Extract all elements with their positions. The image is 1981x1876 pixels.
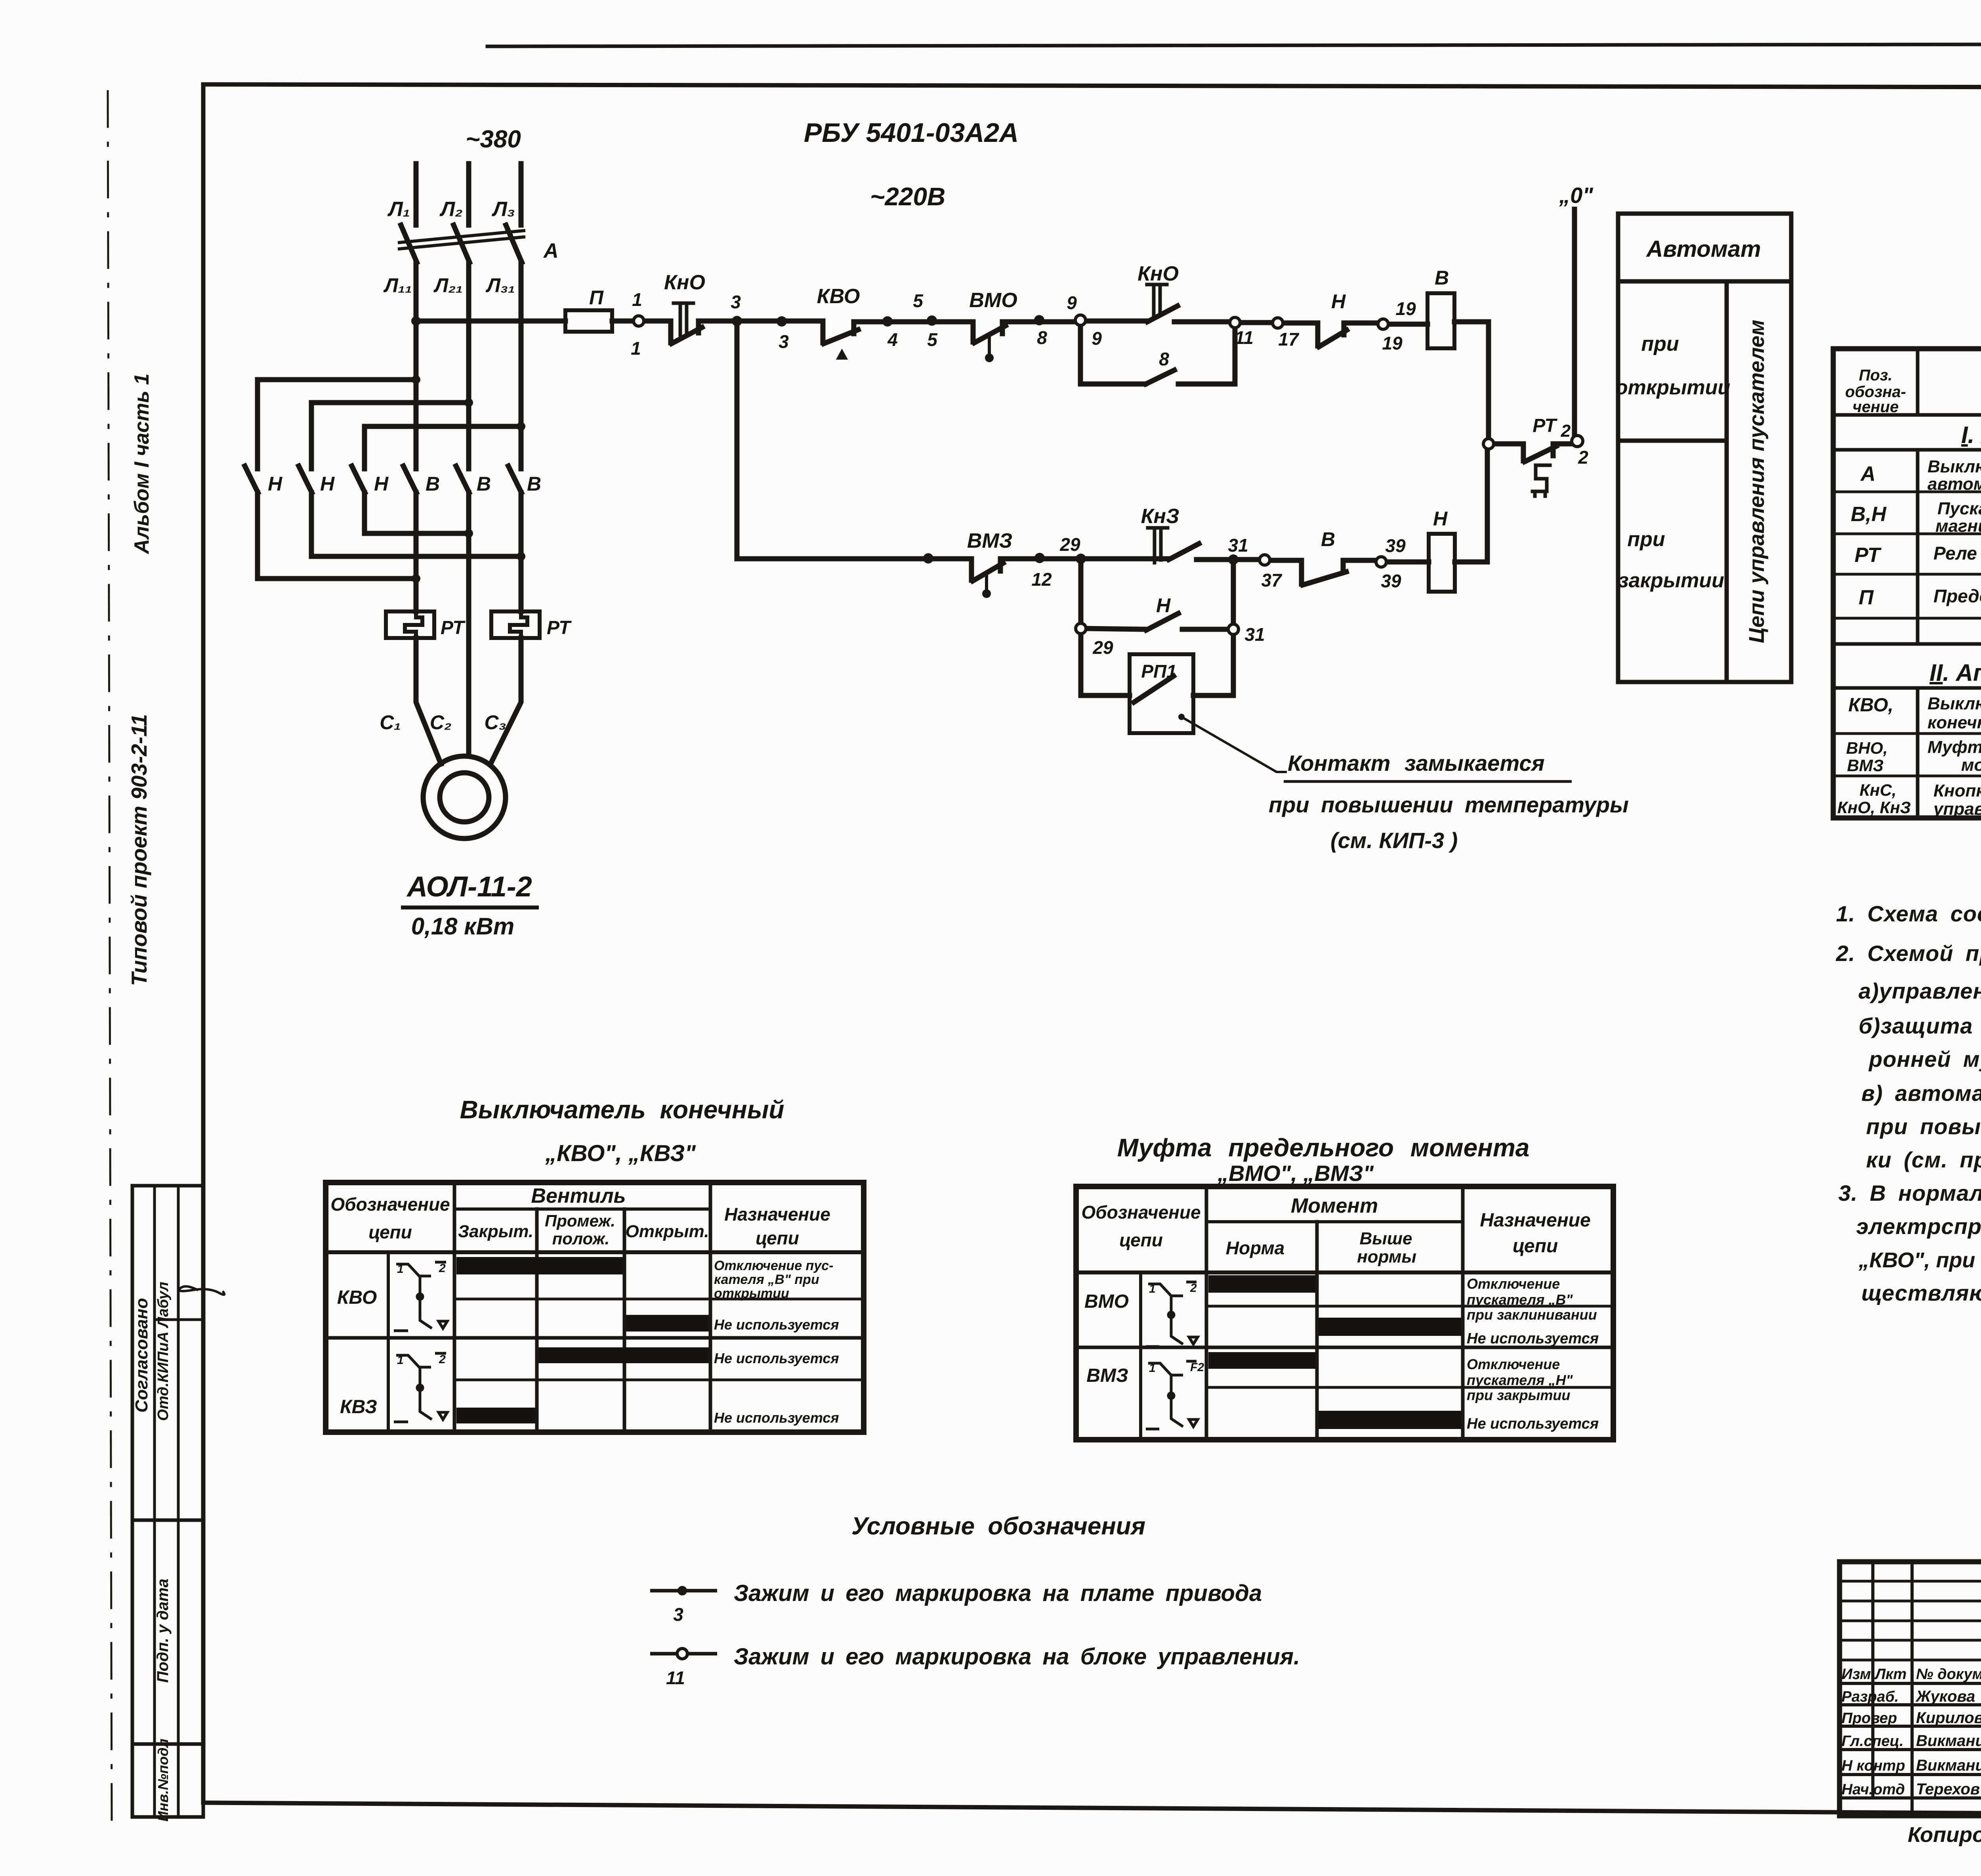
svg-text:РП1: РП1: [1141, 661, 1176, 682]
contact КВО blade: [824, 330, 858, 344]
node: L1 / H1 top junction: [412, 375, 420, 384]
svg-text:В: В: [426, 473, 440, 495]
table2 symbol subcolumn: [1139, 1272, 1142, 1440]
element table outline: [1833, 349, 1981, 818]
node 19 circle: [1378, 319, 1388, 329]
svg-text:Выключатель конечный: Выключатель конечный: [460, 1095, 784, 1124]
wire: motor lead C1: [416, 638, 441, 764]
switch symbol КВО: [394, 1262, 447, 1331]
table2 header bottom: [1076, 1270, 1613, 1274]
contact КВО left post: [821, 321, 826, 343]
svg-text:Муфта предельного момента: Муфта предельного момента: [1117, 1133, 1530, 1162]
svg-text:ществляющей закрытие вентиля: ществляющей закрытие вентиля с дожимом.: [1861, 1280, 1981, 1305]
svg-text:ки (см. проект КИП).: ки (см. проект КИП).: [1866, 1147, 1981, 1172]
wire: coil Н to right riser: [1455, 449, 1487, 562]
node 3: [732, 316, 742, 326]
svg-text:1: 1: [397, 1263, 404, 1276]
svg-text:1: 1: [631, 338, 641, 359]
contact 8 blade: [1146, 370, 1174, 384]
svg-text:КВЗ: КВЗ: [340, 1396, 377, 1418]
svg-text:~380: ~380: [466, 126, 521, 153]
wire: node9 to button КнО2: [1086, 319, 1147, 324]
svg-text:С₁: С₁: [380, 711, 401, 734]
node 5: [927, 315, 937, 326]
left stamp box Инв. номер подл.: [132, 1744, 203, 1817]
svg-text:11: 11: [666, 1668, 685, 1688]
node 1 circle: [634, 316, 644, 326]
contact РТ right hook: [1553, 444, 1572, 456]
svg-text:3: 3: [779, 331, 789, 352]
svg-text:Альбом I часть 1: Альбом I часть 1: [130, 373, 153, 554]
wire: phase L1 upper: [414, 164, 419, 225]
svg-text:Назначение: Назначение: [1480, 1210, 1590, 1231]
breaker A pole 3 blade: [506, 225, 522, 262]
wire: junction to РТ contact: [1493, 444, 1523, 461]
node 37 circle: [1260, 555, 1270, 565]
svg-text:пускателя „Н": пускателя „Н": [1467, 1372, 1573, 1388]
svg-text:2: 2: [1561, 421, 1571, 441]
wire: phase L11 lower: [414, 262, 419, 611]
svg-text:Инв.№подл: Инв.№подл: [155, 1738, 171, 1821]
table1 header Вентиль underline: [454, 1207, 710, 1211]
svg-text:29: 29: [1092, 637, 1113, 658]
wire: rung2 bypass drop left: [1078, 559, 1084, 623]
node 2 circle: [1572, 436, 1583, 447]
contact КВО right hook: [854, 322, 973, 334]
node 11 circle: [1230, 317, 1240, 328]
svg-text:Кнопка: Кнопка: [1933, 781, 1981, 800]
travel bar ВМЗ norm: [1208, 1352, 1315, 1369]
svg-text:Промеж.: Промеж.: [545, 1211, 615, 1230]
svg-text:полож.: полож.: [552, 1229, 610, 1248]
svg-text:„0": „0": [1559, 183, 1594, 208]
svg-text:Открыт.: Открыт.: [626, 1222, 709, 1241]
wire: phase L21 lower: [466, 262, 471, 756]
svg-text:при заклинивании: при заклинивании: [1467, 1307, 1597, 1323]
node 8: [1034, 315, 1044, 325]
svg-text:1: 1: [397, 1354, 404, 1367]
thermal relay РТ hook symbol: [1533, 465, 1550, 496]
svg-text:Н: Н: [320, 473, 335, 495]
svg-text:ВМЗ: ВМЗ: [1847, 756, 1884, 775]
element table header bottom: [1833, 413, 1981, 417]
frame top border: [203, 84, 1981, 88]
wire: bypass2 left to Н contact: [1086, 629, 1146, 629]
svg-text:цепи: цепи: [756, 1228, 799, 1248]
svg-text:31: 31: [1244, 624, 1265, 645]
svg-text:Викманис: Викманис: [1916, 1757, 1981, 1774]
node: L2 / H3 bottom junction: [464, 529, 473, 538]
breaker A tie bar: [399, 231, 524, 243]
svg-text:КнС,: КнС,: [1859, 781, 1896, 799]
svg-text:ВМО: ВМО: [1084, 1291, 1129, 1312]
svg-text:ВНО,: ВНО,: [1846, 739, 1888, 757]
wire: motor lead C3: [490, 638, 521, 764]
svg-text:закрытии: закрытии: [1618, 569, 1724, 592]
breaker A pole 1 blade: [401, 225, 417, 262]
svg-text:Л₃: Л₃: [491, 198, 515, 221]
svg-text:„ВМО", „ВМЗ": „ВМО", „ВМЗ": [1217, 1161, 1374, 1186]
wire: drop node3 to rung2: [737, 321, 971, 559]
svg-text:момента: момента: [1961, 755, 1981, 775]
node 9 circle: [1075, 315, 1086, 325]
contact РТ blade: [1525, 446, 1556, 462]
svg-text:П: П: [589, 287, 604, 309]
wire: H branch top 1: [258, 380, 416, 469]
wire: rung1 bypass (seal-in contact 8): [1080, 325, 1145, 384]
svg-text:нормы: нормы: [1357, 1247, 1416, 1267]
node: L3 / H2 bottom junction: [517, 552, 525, 561]
svg-text:цепи: цепи: [1119, 1230, 1163, 1250]
contactor H pole 1 blade: [245, 466, 258, 493]
svg-text:~220В: ~220В: [870, 182, 945, 211]
node dot rung2 left: [923, 553, 933, 564]
svg-text:КнО: КнО: [1137, 262, 1179, 285]
element table column Поз: [1916, 349, 1920, 818]
node 39 circle: [1376, 557, 1386, 567]
button КнЗ plunger: [1148, 528, 1168, 563]
node 29 circle: [1076, 623, 1086, 634]
svg-text:Не используется: Не используется: [1467, 1330, 1599, 1347]
svg-text:КнЗ: КнЗ: [1141, 505, 1179, 528]
svg-text:Лкт: Лкт: [1874, 1666, 1907, 1683]
svg-text:В: В: [1321, 528, 1335, 550]
svg-text:2: 2: [439, 1353, 446, 1366]
svg-text:Кирилова: Кирилова: [1916, 1709, 1981, 1727]
svg-text:(см. КИП-3 ): (см. КИП-3 ): [1330, 828, 1458, 853]
svg-text:открытии: открытии: [1615, 376, 1730, 399]
svg-text:8: 8: [1037, 327, 1047, 348]
svg-text:кателя „В" при: кателя „В" при: [714, 1272, 819, 1287]
svg-text:КВО,: КВО,: [1848, 695, 1893, 716]
svg-text:Выключатель: Выключатель: [1928, 694, 1981, 713]
node 31 circle: [1228, 624, 1239, 634]
svg-text:9: 9: [1092, 328, 1102, 349]
svg-text:39: 39: [1381, 571, 1401, 591]
table2 row lines: [1206, 1305, 1613, 1308]
svg-text:Отключение пус-: Отключение пус-: [714, 1258, 833, 1273]
wire: button КнО2 right to node 11: [1174, 319, 1230, 325]
svg-text:19: 19: [1382, 333, 1403, 353]
wire: node39 to coil Н: [1386, 560, 1429, 565]
top paper edge line: [487, 44, 1981, 46]
node dot 3b: [777, 316, 787, 327]
wire: coil В to right corner: [1454, 322, 1489, 439]
coil В body: [1428, 293, 1454, 348]
svg-text:Зажим и его маркировка на: Зажим и его маркировка на плате привода: [734, 1580, 1262, 1606]
svg-text:Н: Н: [374, 473, 389, 495]
travel bar КВО circuit2 open: [626, 1315, 709, 1332]
svg-text:при: при: [1641, 332, 1679, 355]
wire: H branch bottom 1: [258, 493, 416, 579]
wire: H branch bottom 2: [311, 493, 521, 556]
legend symbol: clamp on control block: [650, 1652, 717, 1656]
svg-text:Не используется: Не используется: [714, 1316, 839, 1333]
svg-text:при: при: [1627, 528, 1665, 551]
svg-text:Момент: Момент: [1291, 1194, 1378, 1217]
svg-text:Л₂₁: Л₂₁: [433, 274, 463, 296]
svg-text:С₂: С₂: [430, 711, 452, 734]
frame bottom border: [203, 1803, 1981, 1817]
title block outline: [1840, 1562, 1981, 1816]
table1 symbol subcolumn: [387, 1252, 390, 1432]
svg-text:конечный: конечный: [1928, 713, 1981, 732]
svg-text:1: 1: [1149, 1282, 1156, 1295]
motor АОЛ-11-2 inner circle: [440, 773, 489, 822]
contact ВМЗ stub dot: [982, 589, 991, 598]
signature table row lines: [1840, 1580, 1981, 1583]
svg-text:Н: Н: [1156, 594, 1171, 617]
contact Н (rung1) blade: [1319, 330, 1347, 347]
svg-text:Согласовано: Согласовано: [132, 1298, 151, 1412]
РП1 relay box: [1130, 654, 1193, 733]
margin cut line: [108, 91, 112, 1823]
svg-text:ронней муфтой предельного м: ронней муфтой предельного момента „ВМО",…: [1868, 1047, 1981, 1072]
svg-text:12: 12: [1031, 569, 1052, 590]
svg-text:Контакт замыкается: Контакт замыкается: [1288, 751, 1545, 776]
svg-text:Вентиль: Вентиль: [531, 1184, 626, 1207]
frame left border: [201, 84, 206, 1803]
contact ВМО link stub: [988, 335, 991, 354]
wire: button КнЗ right to node 31: [1197, 557, 1233, 562]
svg-text:РТ: РТ: [547, 617, 572, 638]
wire: phase L3 upper: [519, 164, 524, 225]
svg-text:Назначение: Назначение: [724, 1204, 830, 1225]
signature table columns: [1871, 1562, 1874, 1798]
node 4: [882, 316, 893, 327]
svg-text:„КВО", „КВЗ": „КВО", „КВЗ": [545, 1141, 696, 1166]
button КнО2 plunger: [1147, 285, 1167, 317]
svg-text:Л₃₁: Л₃₁: [486, 274, 515, 296]
travel bar ВМО norm: [1208, 1275, 1315, 1293]
legend symbol: clamp on drive plate: [650, 1589, 717, 1593]
left stamp box Подп. и дата: [132, 1520, 203, 1744]
wire: H branch top 3: [365, 426, 521, 469]
svg-text:чение: чение: [1853, 398, 1899, 416]
travel bar ВМО above-norm: [1319, 1318, 1461, 1336]
node 17 circle: [1273, 318, 1283, 328]
svg-text:Отключение: Отключение: [1467, 1276, 1560, 1292]
svg-text:Н: Н: [1433, 508, 1448, 530]
svg-text:3: 3: [673, 1604, 683, 1625]
svg-text:Не используется: Не используется: [1467, 1416, 1599, 1432]
svg-text:2: 2: [439, 1262, 446, 1275]
svg-text:Викманис: Викманис: [1916, 1732, 1981, 1750]
svg-text:31: 31: [1228, 535, 1248, 556]
contact ВМЗ link stub: [985, 572, 988, 590]
svg-text:В,Н: В,Н: [1851, 503, 1887, 526]
svg-text:Нач.отд: Нач.отд: [1842, 1781, 1905, 1798]
svg-text:КВО: КВО: [337, 1287, 377, 1308]
svg-text:Муфта предельного: Муфта предельного: [1928, 737, 1981, 757]
svg-text:39: 39: [1385, 535, 1406, 556]
table1 row lines: [454, 1298, 864, 1301]
svg-text:ВМЗ: ВМЗ: [967, 529, 1012, 552]
svg-text:РТ: РТ: [1533, 415, 1557, 436]
table1 outline: [326, 1183, 864, 1432]
wire: phase L2 upper: [466, 164, 471, 225]
svg-text:Л₁: Л₁: [387, 198, 410, 221]
svg-text:Не используется: Не используется: [714, 1410, 839, 1426]
svg-text:1: 1: [632, 289, 642, 310]
table1 header bottom: [326, 1250, 864, 1254]
button КнО plunger: [674, 303, 693, 335]
svg-text:В: В: [527, 473, 541, 495]
node 31 upper dot: [1228, 554, 1239, 565]
contact ВМО stub dot: [985, 353, 994, 362]
svg-text:цепи: цепи: [1513, 1236, 1558, 1257]
svg-text:Терехов: Терехов: [1916, 1780, 1980, 1798]
svg-text:Закрыт.: Закрыт.: [458, 1222, 533, 1241]
contact В (rung2) blade: [1303, 572, 1346, 585]
left stamp box Согласовано: [132, 1186, 203, 1520]
thermal relay РТ heater 1 box: [386, 611, 434, 638]
svg-text:Норма: Норма: [1226, 1238, 1284, 1258]
stamp signature squiggle: [179, 1286, 224, 1295]
contactor B pole 2 blade: [456, 466, 469, 493]
svg-text:Отключение: Отключение: [1467, 1356, 1560, 1372]
wire: bypass right side: [1178, 329, 1235, 384]
contact Н (rung1) left post: [1315, 323, 1321, 346]
svg-text:17: 17: [1278, 329, 1300, 350]
svg-text:Н: Н: [268, 473, 282, 495]
svg-text:37: 37: [1261, 570, 1282, 590]
svg-text:управления: управления: [1933, 799, 1981, 819]
svg-text:АОЛ-11-2: АОЛ-11-2: [406, 871, 532, 903]
node junction coils circle: [1483, 439, 1494, 449]
contact ВМО left post: [971, 322, 976, 342]
svg-text:Провер: Провер: [1842, 1710, 1897, 1727]
wire: node11 to node17 to H contact: [1240, 320, 1273, 325]
button КнО left post: [668, 321, 674, 343]
svg-text:КнО: КнО: [664, 271, 705, 294]
svg-text:9: 9: [1067, 292, 1077, 313]
svg-text:РТ: РТ: [441, 617, 466, 638]
svg-text:5: 5: [927, 329, 938, 350]
wire: node19 to coil В: [1388, 322, 1428, 327]
svg-text:КВО: КВО: [817, 285, 860, 308]
svg-text:А: А: [1860, 462, 1876, 485]
contactor B pole 1 blade: [403, 466, 416, 493]
svg-text:автоматический: автоматический: [1928, 474, 1981, 494]
callout leader line: [1181, 717, 1286, 772]
svg-text:Н: Н: [1331, 290, 1346, 313]
wire: РП1 branch left: [1081, 634, 1130, 695]
svg-text:F2: F2: [1190, 1361, 1204, 1374]
svg-text:пускателя „В": пускателя „В": [1467, 1291, 1573, 1308]
contact РП1 blade: [1134, 676, 1174, 702]
svg-text:в) автоматическое закрытие в: в) автоматическое закрытие вентиля элект…: [1861, 1081, 1981, 1106]
node bypass2 tap dot: [1076, 554, 1086, 564]
wire: node 3 to dot 3: [737, 319, 823, 324]
node 29 upper dot: [1034, 553, 1045, 563]
button КнО right hook: [699, 321, 737, 333]
automat box outline: [1618, 214, 1791, 682]
svg-text:РТ: РТ: [1855, 544, 1882, 567]
travel bar ВМЗ above-norm: [1319, 1411, 1461, 1429]
svg-text:Жукова: Жукова: [1915, 1688, 1975, 1705]
svg-text:Подп. у дата: Подп. у дата: [154, 1579, 172, 1683]
svg-text:при повышении температуры в: при повышении температуры в баках жидкой…: [1866, 1114, 1981, 1139]
table2 columns: [1205, 1186, 1208, 1440]
callout leader dot: [1178, 714, 1185, 720]
travel bar КВЗ circuit1 intermediate-open: [538, 1347, 709, 1363]
contact ВМЗ blade: [973, 563, 1003, 581]
svg-text:открытии: открытии: [714, 1286, 789, 1301]
svg-text:„КВО", при закрытии - муфтой п: „КВО", при закрытии - муфтой предельного…: [1858, 1248, 1981, 1272]
automat box divider cells: [1618, 439, 1727, 443]
svg-text:4: 4: [887, 329, 898, 350]
svg-text:I. Аппараты на ЩСУ: I. Аппараты на ЩСУ: [1961, 422, 1981, 448]
svg-text:0,18 кВт: 0,18 кВт: [411, 913, 515, 940]
svg-text:В: В: [1435, 267, 1449, 289]
wire: fuse to node 1: [612, 319, 634, 324]
svg-text:Не используется: Не используется: [714, 1350, 839, 1366]
svg-text:29: 29: [1059, 534, 1080, 555]
automat box divider under title: [1618, 279, 1791, 284]
svg-text:Автомат: Автомат: [1645, 236, 1761, 262]
svg-text:2: 2: [1190, 1282, 1197, 1295]
svg-text:11: 11: [1235, 327, 1254, 348]
svg-text:при повышении температуры: при повышении температуры: [1269, 792, 1629, 817]
thermal relay РТ heater 2 box: [491, 611, 540, 638]
node: L1 control tap: [411, 316, 421, 326]
contact Н (bypass2) blade: [1146, 613, 1178, 630]
svg-text:3: 3: [731, 292, 741, 312]
svg-text:Цепи управления пускателем: Цепи управления пускателем: [1745, 320, 1769, 643]
clutch symbol ВМО: [1146, 1282, 1198, 1347]
svg-text:Поз.: Поз.: [1859, 367, 1893, 384]
svg-text:ВМО: ВМО: [969, 289, 1017, 312]
travel bar КВЗ circuit2 closed: [456, 1408, 535, 1423]
svg-text:Л₂: Л₂: [439, 198, 463, 221]
svg-text:Н контр: Н контр: [1842, 1758, 1905, 1774]
svg-text:19: 19: [1395, 298, 1416, 319]
fuse П body: [565, 310, 612, 332]
svg-text:8: 8: [1159, 349, 1169, 369]
wire: РП1 right to node31 riser: [1193, 634, 1233, 695]
wire: H branch top 2: [311, 403, 469, 469]
automat box inner vertical: [1725, 281, 1729, 682]
contact ВМЗ right hook: [1000, 559, 1168, 571]
button КнО blade: [672, 327, 702, 344]
svg-text:Обозначение: Обозначение: [1081, 1202, 1200, 1223]
wire: L1 gap restore above H row: [416, 426, 416, 460]
element table row lines: [1833, 448, 1981, 452]
breaker A pole 2 blade: [454, 225, 469, 262]
contact ВМЗ left post: [969, 559, 974, 580]
svg-text:РБУ 5401-03А2А: РБУ 5401-03А2А: [804, 118, 1019, 148]
node: L3 / H3 top junction: [517, 422, 525, 431]
table2 header Момент underline: [1206, 1220, 1463, 1223]
svg-text:Пускатель: Пускатель: [1937, 499, 1981, 518]
button КнЗ blade: [1169, 544, 1199, 560]
wire: rung1 tap to fuse: [416, 319, 565, 324]
svg-text:П: П: [1859, 586, 1874, 609]
svg-text:Выключатель: Выключатель: [1928, 457, 1981, 476]
svg-text:Предохранитель: Предохранитель: [1933, 586, 1981, 606]
node: L1 / H1 bottom junction: [412, 574, 420, 583]
svg-text:1: 1: [1149, 1362, 1156, 1375]
contact В (rung2) left post: [1299, 560, 1304, 584]
wire: phase L31 lower: [519, 262, 524, 611]
contactor H pole 2 blade: [299, 466, 312, 493]
contact В (rung2) right hook: [1343, 560, 1376, 572]
clutch symbol ВМЗ: [1146, 1361, 1204, 1429]
node: L2 / H2 top junction: [464, 398, 473, 407]
svg-text:Разраб.: Разраб.: [1842, 1689, 1899, 1705]
svg-text:Типовой проект 903-2-11: Типовой проект 903-2-11: [127, 714, 151, 986]
